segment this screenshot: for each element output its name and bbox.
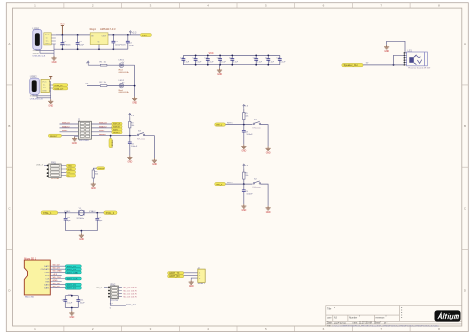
svg-text:Speaker_Out: Speaker_Out [344,64,358,67]
svg-text:0.1uF: 0.1uF [221,61,227,63]
svg-text:SDIO_D1: SDIO_D1 [67,288,77,290]
svg-text:VBUS: VBUS [98,168,104,170]
svg-text:KH-xxxx: KH-xxxx [137,139,146,141]
svg-text:CMD: CMD [45,272,50,274]
svg-text:10uF: 10uF [80,302,86,304]
svg-text:GND: GND [72,143,77,145]
svg-text:XTAL_1: XTAL_1 [43,212,52,215]
svg-text:0.1uF: 0.1uF [257,61,263,63]
svg-text:CD/DAT3: CD/DAT3 [41,268,51,271]
svg-text:PULL_3.3: PULL_3.3 [126,304,137,306]
svg-text:100uF/6V3: 100uF/6V3 [115,45,126,47]
svg-text:XTAL_2: XTAL_2 [106,212,115,215]
svg-text:22uF: 22uF [129,45,135,47]
svg-text:DAT2: DAT2 [44,265,50,268]
svg-text:KH-xxxx: KH-xxxx [253,127,262,129]
svg-text:SD_D1 10k R: SD_D1 10k R [123,290,137,292]
svg-text:Size: Size [327,317,332,319]
svg-text:Revision: Revision [376,317,386,319]
svg-text:SWDIO: SWDIO [99,126,107,128]
svg-text:AMS1117-3.3: AMS1117-3.3 [100,27,116,31]
svg-text:USB-Micro-B: USB-Micro-B [30,97,43,100]
svg-text:Sheet*: Sheet* [374,322,381,325]
svg-text:VCC: VCC [60,24,65,26]
svg-text:USB-Micro-B: USB-Micro-B [33,55,46,58]
svg-text:*: * [386,315,387,319]
svg-text:Number: Number [349,316,357,319]
svg-text:SD_D3 10k R: SD_D3 10k R [123,297,137,299]
svg-text:A: A [8,42,10,46]
svg-text:Shield: Shield [33,50,40,52]
svg-text:SD_D1: SD_D1 [53,286,61,288]
svg-text:SD_D0: SD_D0 [53,283,61,285]
svg-text:22uF: 22uF [79,45,85,47]
svg-text:0.1uF: 0.1uF [67,302,73,304]
svg-text:DAT0: DAT0 [44,283,50,286]
svg-text:LED1: LED1 [119,59,125,61]
svg-text:8pF: 8pF [67,220,71,222]
svg-text:*: * [334,306,335,310]
svg-text:of *: of * [384,323,388,325]
svg-text:VCC: VCC [42,81,47,83]
svg-text:62-LINE: 62-LINE [51,178,60,180]
svg-text:VDD: VDD [68,294,73,296]
svg-text:32 MHz: 32 MHz [76,218,84,220]
svg-text:A: A [464,42,466,46]
svg-text:RESET: RESET [50,136,58,138]
svg-text:G: G [98,41,100,43]
svg-text:D-: D- [46,37,49,39]
svg-text:0.1uF: 0.1uF [269,61,275,63]
svg-text:0.1uF: 0.1uF [233,61,239,63]
svg-text:Micro SD 1: Micro SD 1 [24,257,36,260]
svg-text:KH-xxxx: KH-xxxx [253,187,262,189]
svg-text:SWDIO: SWDIO [62,126,70,128]
svg-text:2024-03-02: 2024-03-02 [334,323,346,325]
svg-text:OUT: OUT [102,35,107,37]
svg-text:0.1uF: 0.1uF [184,61,190,63]
svg-text:RESET: RESET [113,132,121,134]
svg-text:Date:: Date: [327,322,333,325]
svg-text:SD_CLK: SD_CLK [53,277,62,279]
svg-text:SD_D0 10k R: SD_D0 10k R [123,287,137,289]
svg-text:RESET: RESET [99,134,107,136]
svg-text:SWCLK: SWCLK [99,122,107,124]
svg-text:100uF/6V3: 100uF/6V3 [60,45,71,47]
svg-text:VCC: VCC [209,52,214,55]
svg-text:0.1uF: 0.1uF [280,61,286,63]
svg-text:SWCLK: SWCLK [62,122,70,124]
svg-text:SD_D3: SD_D3 [53,268,61,270]
svg-text:LED2: LED2 [119,80,125,82]
svg-text:SW-JTAG: SW-JTAG [79,139,89,142]
svg-text:3.3V: 3.3V [142,35,147,37]
svg-text:GND: GND [45,43,50,45]
svg-text:SW_2: SW_2 [216,184,223,186]
svg-text:D-: D- [68,176,71,178]
svg-text:62-LINE: 62-LINE [111,300,119,302]
svg-text:File:: File: [327,325,332,327]
svg-text:GND: GND [53,280,58,282]
svg-text:0603-LDA: 0603-LDA [119,91,129,94]
svg-text:SDIO_CMD: SDIO_CMD [67,272,79,274]
svg-text:CLK: CLK [45,278,50,280]
svg-text:+3.3: +3.3 [132,32,137,35]
svg-text:XTAL2: XTAL2 [89,210,96,213]
svg-text:VSS: VSS [45,281,50,283]
svg-text:C:\Users\USER\STM32F103_PROJEC: C:\Users\USER\STM32F103_PROJECT\board\CH… [332,324,440,327]
svg-text:SWDIO: SWDIO [113,127,120,129]
svg-text:USB_D+: USB_D+ [54,88,64,90]
svg-text:KEY2: KEY2 [227,182,233,184]
svg-text:SWO: SWO [99,130,105,132]
svg-text:UART_RX: UART_RX [169,275,180,278]
svg-text:Phoenix Sound 4R 3W: Phoenix Sound 4R 3W [408,67,431,69]
svg-text:SD_D2: SD_D2 [53,265,61,267]
svg-text:SD_CMD: SD_CMD [53,271,63,273]
svg-text:100nF: 100nF [246,193,253,195]
svg-text:SW_1: SW_1 [216,125,223,127]
svg-text:B: B [464,124,466,128]
svg-text:0.1uF: 0.1uF [208,61,214,63]
svg-text:Shield: Shield [30,96,37,98]
svg-text:DAT1: DAT1 [44,287,50,290]
svg-text:SWO: SWO [113,129,118,131]
svg-text:KEY1: KEY1 [227,123,233,125]
svg-text:SDIO_D0: SDIO_D0 [67,285,77,287]
svg-text:0.1uF: 0.1uF [196,61,202,63]
svg-text:VCC: VCC [45,34,50,36]
svg-text:SWCLK: SWCLK [113,124,121,126]
svg-text:B: B [8,124,10,128]
svg-text:100nF: 100nF [131,146,138,148]
svg-text:Mode 1: Mode 1 [198,283,206,285]
svg-text:100nF: 100nF [246,134,253,136]
svg-text:8pF: 8pF [99,220,103,222]
svg-text:Time:: Time: [352,323,358,325]
svg-text:RXD: RXD [68,169,73,171]
svg-text:SWO: SWO [62,130,68,132]
svg-text:D-: D- [43,84,46,86]
svg-text:TXD: TXD [68,166,73,168]
svg-text:RESET: RESET [111,140,113,148]
svg-text:SDIO_D3: SDIO_D3 [67,269,77,271]
svg-text:VDD: VDD [45,275,50,277]
svg-text:GND: GND [42,90,47,92]
svg-text:11:27:35 AM: 11:27:35 AM [359,322,372,325]
svg-text:0603-LDA: 0603-LDA [119,71,129,74]
svg-text:Title: Title [327,308,332,311]
svg-text:*: * [359,315,360,319]
svg-text:USB_X: USB_X [36,165,44,167]
svg-text:Reg1: Reg1 [90,27,97,31]
svg-text:SD_X: SD_X [96,287,102,289]
svg-text:SD_D2 10k R: SD_D2 10k R [123,293,137,295]
svg-text:Micro SD: Micro SD [25,296,34,299]
svg-text:SDIO_CLK: SDIO_CLK [67,278,78,280]
svg-text:SDIO_D2: SDIO_D2 [67,266,77,268]
